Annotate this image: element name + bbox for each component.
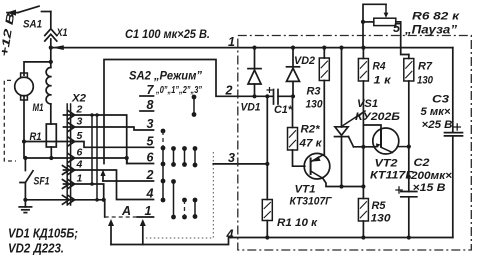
wire SA1 to X1 (50, 12, 52, 28)
svg-text:130: 130 (306, 99, 324, 111)
svg-text:SF1: SF1 (34, 176, 50, 188)
contact col4 upper (193, 146, 198, 167)
junction rail top (49, 46, 53, 50)
transistor VT2 KT117G ujt (373, 128, 409, 154)
node motor tap (49, 60, 53, 64)
svg-text:R4: R4 (373, 61, 386, 73)
svg-text:SA2 „Режим”: SA2 „Режим” (129, 69, 202, 83)
diode VD2 (287, 48, 300, 97)
svg-text:×15 В: ×15 В (413, 182, 446, 194)
svg-text:4: 4 (76, 158, 83, 170)
thyristor VS1 (341, 48, 343, 127)
dotted box around matrix (146, 152, 213, 238)
SA2 stub 7 (140, 95, 154, 97)
svg-text:VD1: VD1 (241, 102, 261, 114)
node rail/VD1 (252, 46, 256, 50)
wire row4 (64, 170, 154, 200)
wire X1 down to motor tap (50, 48, 52, 62)
svg-text:6: 6 (77, 146, 83, 158)
svg-text:VT1: VT1 (295, 184, 316, 196)
wire M1 junction down to SF1 (24, 142, 25, 159)
svg-text:3: 3 (147, 117, 154, 131)
connector X1 (45, 29, 57, 48)
X2 pin 1 chevron (63, 180, 75, 189)
resistor R7 (408, 55, 410, 59)
svg-text:4: 4 (146, 186, 154, 200)
dash-dot unit boundary (238, 36, 471, 251)
svg-text:8: 8 (147, 98, 154, 112)
svg-text:3: 3 (77, 115, 83, 127)
svg-text:6: 6 (147, 150, 155, 164)
svg-text:130: 130 (417, 75, 434, 87)
svg-text:„0”„1”„2”„3”: „0”„1”„2”„3” (155, 85, 202, 96)
svg-text:SA1: SA1 (23, 19, 42, 31)
capacitor C1 (267, 87, 279, 104)
svg-text:R5: R5 (372, 200, 387, 212)
switch position links (91, 115, 93, 184)
resistor R5 (362, 187, 364, 199)
svg-text:1: 1 (77, 172, 83, 184)
wire bottom net4 outside unit (111, 238, 453, 245)
svg-text:VS1: VS1 (357, 98, 378, 110)
contact col1 chain (161, 148, 166, 202)
rail arrowhead (52, 45, 64, 50)
wire emitter node to VT2 (354, 146, 374, 148)
X2 pin 5 chevron (68, 137, 75, 146)
wire R4 column down (362, 81, 364, 187)
wire B2 jog (363, 125, 381, 129)
svg-text:R3: R3 (307, 86, 321, 98)
svg-text:VD2: VD2 (294, 55, 315, 67)
svg-text:С1*: С1* (274, 104, 293, 116)
svg-text:1: 1 (145, 204, 152, 218)
node +12V supply arrow (7, 10, 19, 16)
contact col2 upper (171, 146, 176, 167)
svg-text:3: 3 (228, 151, 235, 165)
motor M1 (15, 73, 34, 100)
svg-text:2: 2 (225, 84, 233, 98)
svg-text:5: 5 (393, 21, 401, 35)
svg-text:VT2: VT2 (375, 158, 398, 170)
svg-text:КТ3107Г: КТ3107Г (290, 196, 333, 208)
wire net3 into unit (213, 163, 267, 165)
svg-text:×25 В: ×25 В (422, 119, 453, 131)
contact 7-8 (192, 95, 197, 117)
svg-text:VD2 Д223.: VD2 Д223. (8, 242, 64, 256)
wire row1 (64, 184, 104, 200)
diode VD1 (248, 48, 261, 97)
capacitor C2 (395, 186, 417, 197)
svg-text:R7: R7 (418, 61, 433, 73)
resistor R4 (362, 48, 364, 59)
wire row2 (64, 115, 127, 164)
contact col4 lower (193, 198, 198, 219)
svg-text:VD1 КД105Б;: VD1 КД105Б; (8, 227, 78, 241)
dashed bracket wiper unit (4, 80, 16, 161)
svg-text:X1: X1 (56, 27, 68, 39)
contact col1 upper (161, 129, 166, 151)
wire A dashes (105, 216, 136, 218)
wire R2 to VT1 base (293, 150, 305, 166)
X2 pin 3 chevron (68, 123, 75, 132)
capacitor C3 (452, 48, 454, 133)
node ground junction (23, 198, 27, 202)
node M1 bottom junction (22, 139, 26, 143)
wire M1 bottom down (23, 96, 25, 142)
wire to motor M1 top (24, 62, 51, 75)
inductor M1 winding (50, 62, 52, 68)
switch SA1 (18, 6, 51, 12)
svg-text:КУ202Б: КУ202Б (355, 111, 400, 123)
svg-text:„Пауза”: „Пауза” (404, 25, 457, 37)
connector X2 strip (66, 104, 68, 205)
X2 pin 6 chevron (68, 154, 75, 163)
svg-text:2: 2 (146, 168, 154, 182)
svg-text:130: 130 (371, 213, 392, 225)
stub 2 line (103, 180, 154, 182)
svg-text:2: 2 (76, 103, 83, 115)
contact col2 lower (171, 179, 176, 219)
transistor VT1 KT3107G pnp (304, 153, 330, 179)
svg-text:200мк×: 200мк× (410, 170, 453, 182)
svg-text:1: 1 (228, 35, 235, 49)
wire row3 (64, 127, 154, 130)
contact col3 upper (182, 146, 187, 167)
potentiometer R6 (361, 4, 396, 47)
contact col3 lower (182, 198, 187, 220)
SA2 stub 8 (140, 110, 154, 112)
main rail net1 (52, 47, 453, 49)
svg-text:5 мк×: 5 мк× (421, 106, 452, 118)
svg-text:5: 5 (147, 134, 155, 148)
svg-text:R6 82 к: R6 82 к (412, 11, 461, 23)
svg-text:С2: С2 (414, 157, 430, 169)
arrow to SA2 common (100, 170, 105, 182)
X2 pin gnd chevron (63, 195, 75, 204)
arrow to 1 (140, 219, 146, 245)
svg-text:47 к: 47 к (298, 138, 323, 150)
X2 pin 4 chevron (63, 166, 75, 175)
node row6 junctions (23, 156, 27, 160)
resistor R1 10k (266, 96, 268, 199)
wire C1 to node (278, 95, 293, 97)
X2 pin 2 chevron (68, 111, 75, 120)
stub 1 underline (137, 216, 154, 218)
svg-text:М1: М1 (33, 102, 44, 114)
wire R3 to VT1 emitter (323, 81, 325, 155)
svg-text:7: 7 (147, 83, 155, 97)
resistor R3 (323, 48, 325, 58)
svg-text:1 к: 1 к (374, 75, 393, 87)
svg-text:R1 10 к: R1 10 к (277, 217, 319, 229)
wire row6 to SA2 pin 6 (25, 158, 153, 164)
leader line VS1 (343, 111, 365, 126)
wire SA2 common (104, 60, 273, 164)
svg-text:R2*: R2* (301, 124, 321, 136)
wire row5 from M1 to SA2 pin 5 (24, 142, 154, 148)
ground symbol (19, 200, 31, 213)
wire R7 down to C2 (408, 81, 410, 192)
wire ground row to A (25, 200, 104, 217)
svg-text:A: A (121, 204, 131, 218)
wire net5 R6 right to R7 (396, 22, 409, 55)
svg-text:С3: С3 (432, 94, 449, 106)
resistor R2* (292, 96, 294, 127)
arrow to A (108, 219, 114, 245)
svg-text:5: 5 (77, 130, 83, 142)
resistor R1 (wiper unit) (46, 124, 56, 147)
svg-text:С1 100 мк×25 В.: С1 100 мк×25 В. (125, 27, 210, 41)
svg-text:4: 4 (226, 228, 234, 242)
switch SF1 (24, 158, 26, 171)
wire VT1 collector (323, 178, 364, 186)
